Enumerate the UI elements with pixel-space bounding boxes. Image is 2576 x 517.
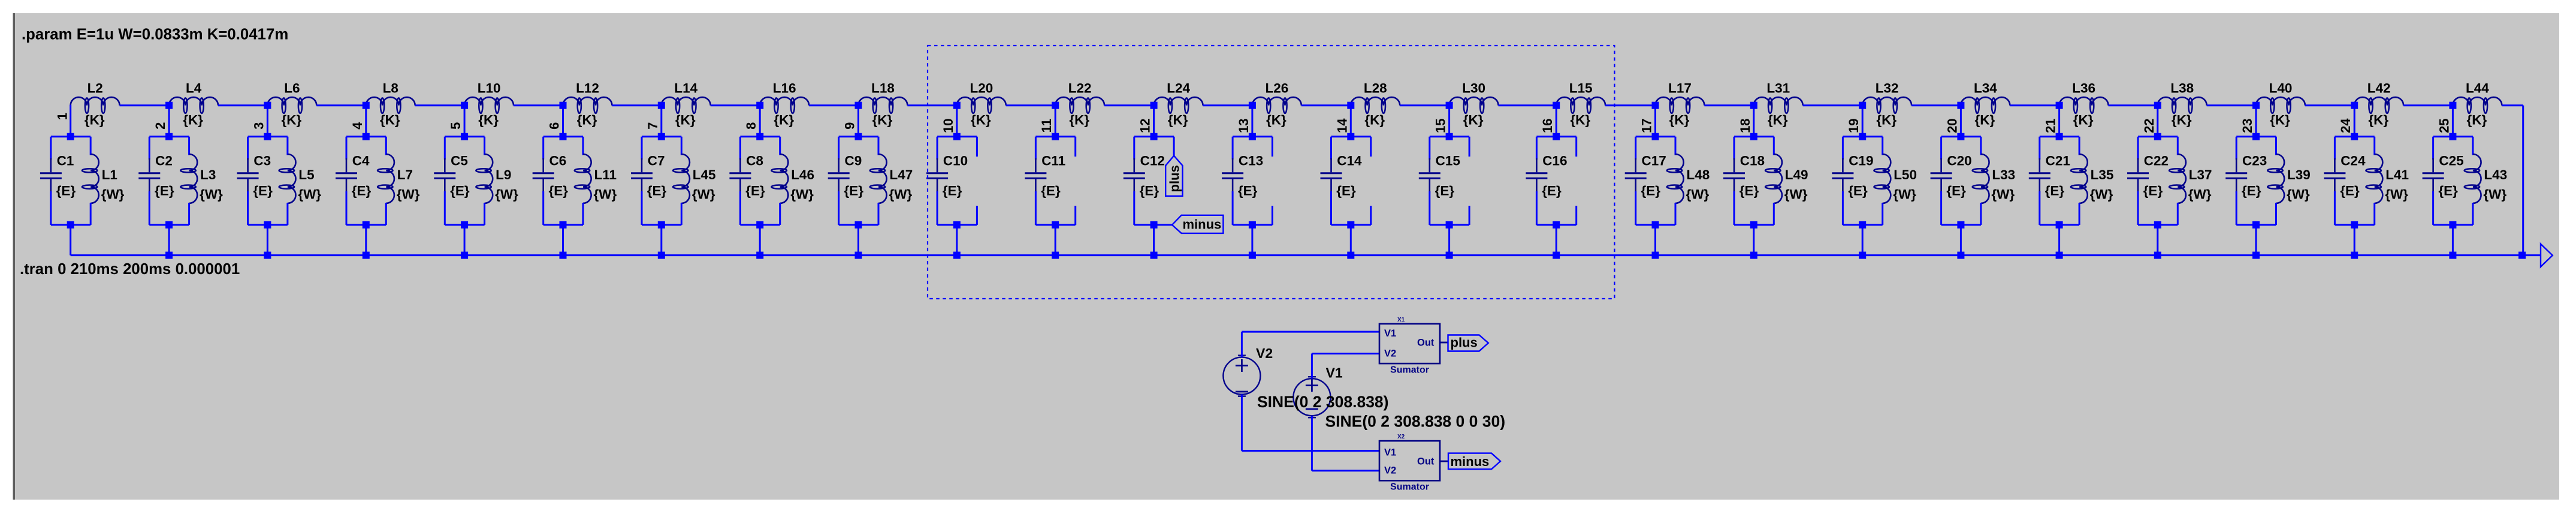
svg-text:L35: L35 bbox=[2091, 167, 2114, 182]
svg-text:C21: C21 bbox=[2046, 154, 2070, 169]
svg-text:X2: X2 bbox=[1397, 434, 1405, 440]
svg-text:L44: L44 bbox=[2466, 81, 2489, 96]
svg-text:{W}: {W} bbox=[1686, 187, 1710, 202]
svg-text:{E}: {E} bbox=[2045, 184, 2065, 199]
svg-text:C1: C1 bbox=[57, 154, 74, 169]
svg-text:{K}: {K} bbox=[380, 113, 400, 128]
svg-text:C24: C24 bbox=[2341, 154, 2366, 169]
svg-text:{E}: {E} bbox=[1641, 184, 1661, 199]
svg-text:{K}: {K} bbox=[1768, 113, 1788, 128]
svg-text:6: 6 bbox=[547, 122, 562, 130]
svg-text:{K}: {K} bbox=[1975, 113, 1995, 128]
svg-text:{K}: {K} bbox=[1876, 113, 1896, 128]
svg-text:3: 3 bbox=[251, 122, 266, 130]
svg-text:12: 12 bbox=[1138, 118, 1153, 133]
svg-text:{W}: {W} bbox=[594, 187, 617, 202]
svg-text:L40: L40 bbox=[2269, 81, 2293, 96]
svg-text:7: 7 bbox=[645, 122, 660, 130]
svg-text:C14: C14 bbox=[1337, 154, 1362, 169]
svg-text:1: 1 bbox=[55, 113, 70, 120]
svg-text:{E}: {E} bbox=[450, 184, 470, 199]
svg-text:L32: L32 bbox=[1876, 81, 1899, 96]
svg-text:{W}: {W} bbox=[2385, 187, 2408, 202]
svg-text:L20: L20 bbox=[970, 81, 993, 96]
svg-text:{W}: {W} bbox=[397, 187, 420, 202]
svg-text:{W}: {W} bbox=[101, 187, 125, 202]
svg-text:{K}: {K} bbox=[282, 113, 302, 128]
svg-text:{W}: {W} bbox=[2188, 187, 2212, 202]
svg-text:plus: plus bbox=[1451, 335, 1478, 350]
svg-text:{W}: {W} bbox=[2090, 187, 2113, 202]
svg-text:13: 13 bbox=[1236, 118, 1251, 133]
svg-text:{K}: {K} bbox=[2270, 113, 2290, 128]
svg-text:C10: C10 bbox=[943, 154, 968, 169]
svg-text:{W}: {W} bbox=[2483, 187, 2506, 202]
svg-text:{K}: {K} bbox=[971, 113, 991, 128]
svg-text:{W}: {W} bbox=[200, 187, 223, 202]
svg-text:L16: L16 bbox=[773, 81, 796, 96]
svg-text:{E}: {E} bbox=[2242, 184, 2261, 199]
svg-text:{E}: {E} bbox=[253, 184, 273, 199]
svg-text:L15: L15 bbox=[1569, 81, 1593, 96]
svg-text:V1: V1 bbox=[1384, 447, 1396, 458]
svg-text:C22: C22 bbox=[2144, 154, 2169, 169]
svg-text:Sumator: Sumator bbox=[1390, 365, 1429, 375]
svg-text:10: 10 bbox=[941, 118, 956, 133]
svg-text:L38: L38 bbox=[2170, 81, 2194, 96]
svg-text:8: 8 bbox=[744, 122, 759, 130]
svg-text:{E}: {E} bbox=[1848, 184, 1868, 199]
svg-text:plus: plus bbox=[1167, 165, 1182, 192]
svg-text:{W}: {W} bbox=[1893, 187, 1916, 202]
svg-text:V2: V2 bbox=[1256, 345, 1273, 361]
svg-text:L34: L34 bbox=[1974, 81, 1997, 96]
svg-text:{K}: {K} bbox=[1266, 113, 1287, 128]
svg-text:C19: C19 bbox=[1849, 154, 1873, 169]
svg-text:minus: minus bbox=[1183, 217, 1222, 232]
svg-text:L24: L24 bbox=[1167, 81, 1190, 96]
svg-text:21: 21 bbox=[2043, 118, 2058, 133]
svg-text:19: 19 bbox=[1846, 118, 1861, 133]
svg-text:{E}: {E} bbox=[1740, 184, 1759, 199]
svg-text:L50: L50 bbox=[1894, 167, 1917, 182]
svg-text:18: 18 bbox=[1738, 118, 1753, 133]
svg-text:15: 15 bbox=[1433, 118, 1448, 133]
svg-text:{W}: {W} bbox=[298, 187, 321, 202]
svg-text:Out: Out bbox=[1417, 456, 1435, 467]
svg-text:C4: C4 bbox=[352, 154, 370, 169]
svg-text:{E}: {E} bbox=[549, 184, 569, 199]
svg-text:{K}: {K} bbox=[1570, 113, 1590, 128]
svg-text:L37: L37 bbox=[2189, 167, 2212, 182]
svg-text:L14: L14 bbox=[674, 81, 697, 96]
svg-text:L3: L3 bbox=[200, 167, 216, 182]
svg-text:25: 25 bbox=[2436, 118, 2451, 133]
svg-text:11: 11 bbox=[1039, 119, 1054, 133]
svg-text:L49: L49 bbox=[1785, 167, 1808, 182]
svg-text:{K}: {K} bbox=[1364, 113, 1385, 128]
svg-text:C2: C2 bbox=[155, 154, 173, 169]
svg-text:L17: L17 bbox=[1668, 81, 1692, 96]
svg-text:L12: L12 bbox=[576, 81, 599, 96]
svg-text:L36: L36 bbox=[2072, 81, 2095, 96]
svg-text:C3: C3 bbox=[253, 154, 271, 169]
svg-text:V1: V1 bbox=[1384, 328, 1396, 339]
svg-text:{E}: {E} bbox=[1041, 184, 1061, 199]
svg-text:C25: C25 bbox=[2439, 154, 2463, 169]
svg-text:L5: L5 bbox=[298, 167, 314, 182]
svg-text:{K}: {K} bbox=[478, 113, 499, 128]
svg-text:{E}: {E} bbox=[1542, 184, 1562, 199]
svg-text:{K}: {K} bbox=[774, 113, 794, 128]
svg-text:C23: C23 bbox=[2242, 154, 2267, 169]
svg-text:{W}: {W} bbox=[495, 187, 518, 202]
svg-text:C5: C5 bbox=[451, 154, 468, 169]
svg-text:Sumator: Sumator bbox=[1390, 482, 1429, 492]
svg-text:24: 24 bbox=[2338, 118, 2353, 133]
svg-text:{E}: {E} bbox=[1435, 184, 1455, 199]
svg-text:{E}: {E} bbox=[155, 184, 174, 199]
svg-text:minus: minus bbox=[1451, 454, 1490, 469]
svg-text:{K}: {K} bbox=[2073, 113, 2094, 128]
svg-text:C16: C16 bbox=[1542, 154, 1567, 169]
svg-text:L7: L7 bbox=[397, 167, 413, 182]
svg-text:C20: C20 bbox=[1947, 154, 1971, 169]
svg-text:{W}: {W} bbox=[1784, 187, 1808, 202]
svg-text:{E}: {E} bbox=[1336, 184, 1356, 199]
svg-text:{K}: {K} bbox=[2368, 113, 2388, 128]
svg-text:L9: L9 bbox=[496, 167, 511, 182]
svg-text:{W}: {W} bbox=[2287, 187, 2310, 202]
svg-text:L6: L6 bbox=[284, 81, 300, 96]
svg-text:20: 20 bbox=[1944, 118, 1959, 133]
svg-text:{W}: {W} bbox=[692, 187, 715, 202]
svg-text:L43: L43 bbox=[2484, 167, 2507, 182]
svg-text:C12: C12 bbox=[1140, 154, 1165, 169]
svg-text:{K}: {K} bbox=[2172, 113, 2192, 128]
svg-text:L30: L30 bbox=[1462, 81, 1485, 96]
svg-text:C8: C8 bbox=[746, 154, 763, 169]
svg-text:C13: C13 bbox=[1239, 154, 1263, 169]
svg-text:C11: C11 bbox=[1041, 154, 1065, 169]
svg-text:{K}: {K} bbox=[577, 113, 597, 128]
svg-text:L46: L46 bbox=[791, 167, 814, 182]
svg-text:L4: L4 bbox=[186, 81, 202, 96]
svg-text:C15: C15 bbox=[1436, 154, 1460, 169]
svg-text:23: 23 bbox=[2240, 118, 2255, 133]
svg-text:{E}: {E} bbox=[844, 184, 864, 199]
svg-text:C6: C6 bbox=[549, 154, 567, 169]
svg-text:L11: L11 bbox=[594, 167, 617, 182]
svg-text:C17: C17 bbox=[1642, 154, 1666, 169]
svg-text:{E}: {E} bbox=[745, 184, 765, 199]
svg-text:{E}: {E} bbox=[1946, 184, 1966, 199]
svg-text:{K}: {K} bbox=[1168, 113, 1188, 128]
svg-text:L2: L2 bbox=[87, 81, 103, 96]
svg-text:{E}: {E} bbox=[943, 184, 962, 199]
svg-text:{E}: {E} bbox=[2438, 184, 2458, 199]
svg-text:{K}: {K} bbox=[1069, 113, 1089, 128]
svg-text:L26: L26 bbox=[1266, 81, 1289, 96]
svg-text:{W}: {W} bbox=[889, 187, 913, 202]
svg-text:{E}: {E} bbox=[647, 184, 667, 199]
svg-text:4: 4 bbox=[350, 122, 365, 130]
svg-text:{E}: {E} bbox=[1238, 184, 1258, 199]
svg-text:.param E=1u W=0.0833m K=0.0417: .param E=1u W=0.0833m K=0.0417m bbox=[22, 26, 288, 43]
svg-text:{K}: {K} bbox=[1463, 113, 1484, 128]
svg-text:{K}: {K} bbox=[1669, 113, 1690, 128]
svg-text:L45: L45 bbox=[693, 167, 716, 182]
svg-text:.tran 0 210ms 200ms 0.000001: .tran 0 210ms 200ms 0.000001 bbox=[20, 261, 240, 278]
svg-text:{K}: {K} bbox=[675, 113, 696, 128]
svg-text:V2: V2 bbox=[1384, 465, 1396, 476]
svg-text:17: 17 bbox=[1639, 118, 1654, 133]
svg-text:{E}: {E} bbox=[56, 184, 76, 199]
svg-text:V1: V1 bbox=[1326, 365, 1343, 381]
svg-text:L31: L31 bbox=[1766, 81, 1790, 96]
svg-text:9: 9 bbox=[842, 122, 857, 130]
svg-text:X1: X1 bbox=[1397, 317, 1405, 323]
svg-text:{W}: {W} bbox=[790, 187, 814, 202]
svg-text:2: 2 bbox=[153, 122, 168, 130]
svg-text:L41: L41 bbox=[2385, 167, 2409, 182]
svg-text:Out: Out bbox=[1417, 338, 1435, 348]
svg-text:14: 14 bbox=[1334, 118, 1349, 133]
svg-text:SINE(0 2 308.838): SINE(0 2 308.838) bbox=[1257, 393, 1389, 411]
svg-text:16: 16 bbox=[1540, 118, 1555, 133]
svg-text:{K}: {K} bbox=[2467, 113, 2487, 128]
svg-text:{E}: {E} bbox=[1140, 184, 1159, 199]
svg-text:{W}: {W} bbox=[1991, 187, 2015, 202]
svg-text:L10: L10 bbox=[478, 81, 501, 96]
svg-text:C7: C7 bbox=[648, 154, 665, 169]
svg-text:{K}: {K} bbox=[183, 113, 203, 128]
svg-text:SINE(0 2 308.838 0 0 30): SINE(0 2 308.838 0 0 30) bbox=[1325, 413, 1506, 431]
svg-text:L8: L8 bbox=[383, 81, 398, 96]
svg-text:C9: C9 bbox=[845, 154, 862, 169]
svg-text:L1: L1 bbox=[102, 167, 117, 182]
svg-text:5: 5 bbox=[448, 122, 463, 130]
svg-text:L39: L39 bbox=[2287, 167, 2311, 182]
svg-text:{K}: {K} bbox=[84, 113, 105, 128]
svg-text:{E}: {E} bbox=[2340, 184, 2360, 199]
svg-text:{E}: {E} bbox=[352, 184, 372, 199]
svg-text:22: 22 bbox=[2142, 118, 2157, 133]
svg-text:L28: L28 bbox=[1364, 81, 1387, 96]
svg-text:V2: V2 bbox=[1384, 348, 1396, 359]
svg-text:{E}: {E} bbox=[2143, 184, 2163, 199]
svg-text:L48: L48 bbox=[1687, 167, 1710, 182]
svg-text:L33: L33 bbox=[1992, 167, 2015, 182]
svg-text:L47: L47 bbox=[890, 167, 913, 182]
svg-text:C18: C18 bbox=[1740, 154, 1765, 169]
svg-text:{K}: {K} bbox=[872, 113, 893, 128]
svg-text:L42: L42 bbox=[2367, 81, 2391, 96]
svg-text:L18: L18 bbox=[871, 81, 895, 96]
svg-text:L22: L22 bbox=[1068, 81, 1092, 96]
